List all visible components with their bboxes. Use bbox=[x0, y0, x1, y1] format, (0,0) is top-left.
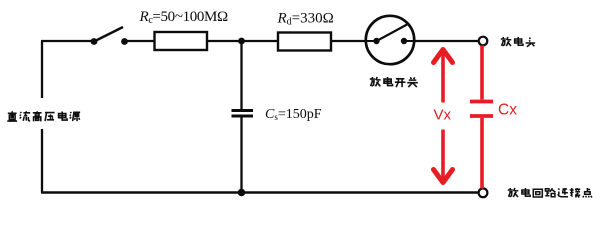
capacitor Cs bottom lead bbox=[240, 117, 242, 194]
switch S1 blade bbox=[94, 27, 123, 42]
discharge switch contacts bbox=[373, 38, 379, 44]
svg-text:Rc=50~100MΩ: Rc=50~100MΩ bbox=[139, 9, 229, 26]
node junction top bbox=[238, 38, 245, 45]
red Vx arrow bbox=[434, 50, 453, 183]
switch S1 contact dots bbox=[91, 38, 98, 45]
wire Rd to discharge switch bbox=[331, 40, 367, 42]
label 直流高压电源 (DC HV source) bbox=[7, 111, 80, 121]
white gap on Vx shaft bbox=[432, 103, 455, 130]
node junction bottom bbox=[238, 189, 246, 197]
wire Rc to Rd bbox=[207, 40, 278, 42]
svg-text:Cs=150pF: Cs=150pF bbox=[265, 107, 322, 122]
terminal: discharge loop connection point bbox=[479, 188, 488, 197]
label 放电开关 (discharge switch) bbox=[370, 77, 418, 87]
red capacitor Cx lead bottom bbox=[480, 118, 484, 189]
discharge switch blade bbox=[377, 25, 408, 42]
wire inside circle right bbox=[404, 40, 414, 42]
wire bottom bbox=[41, 191, 479, 194]
discharge switch circle bbox=[366, 16, 414, 64]
white mask behind DC source label bbox=[0, 98, 88, 129]
capacitor Cs top lead bbox=[240, 41, 242, 110]
label 放电头 (discharge head) bbox=[501, 37, 535, 47]
svg-text:Vx: Vx bbox=[434, 107, 452, 124]
wire inside circle left bbox=[367, 40, 377, 42]
svg-text:Rd=330Ω: Rd=330Ω bbox=[277, 11, 334, 28]
wire circle to discharge head terminal bbox=[414, 40, 479, 42]
red capacitor Cx plates bbox=[470, 100, 493, 104]
wire left vertical bbox=[41, 41, 43, 193]
wire switch to Rc bbox=[124, 40, 154, 42]
label 放电回路连接点 (discharge loop connection point) bbox=[508, 188, 592, 198]
terminal: discharge head bbox=[479, 37, 488, 46]
resistor Rc bbox=[155, 32, 208, 50]
wire top-left to switch bbox=[41, 40, 94, 42]
svg-text:Cx: Cx bbox=[498, 102, 517, 119]
resistor Rd bbox=[278, 33, 331, 51]
red capacitor Cx lead top bbox=[470, 46, 493, 189]
capacitor Cs plates bbox=[232, 109, 254, 112]
